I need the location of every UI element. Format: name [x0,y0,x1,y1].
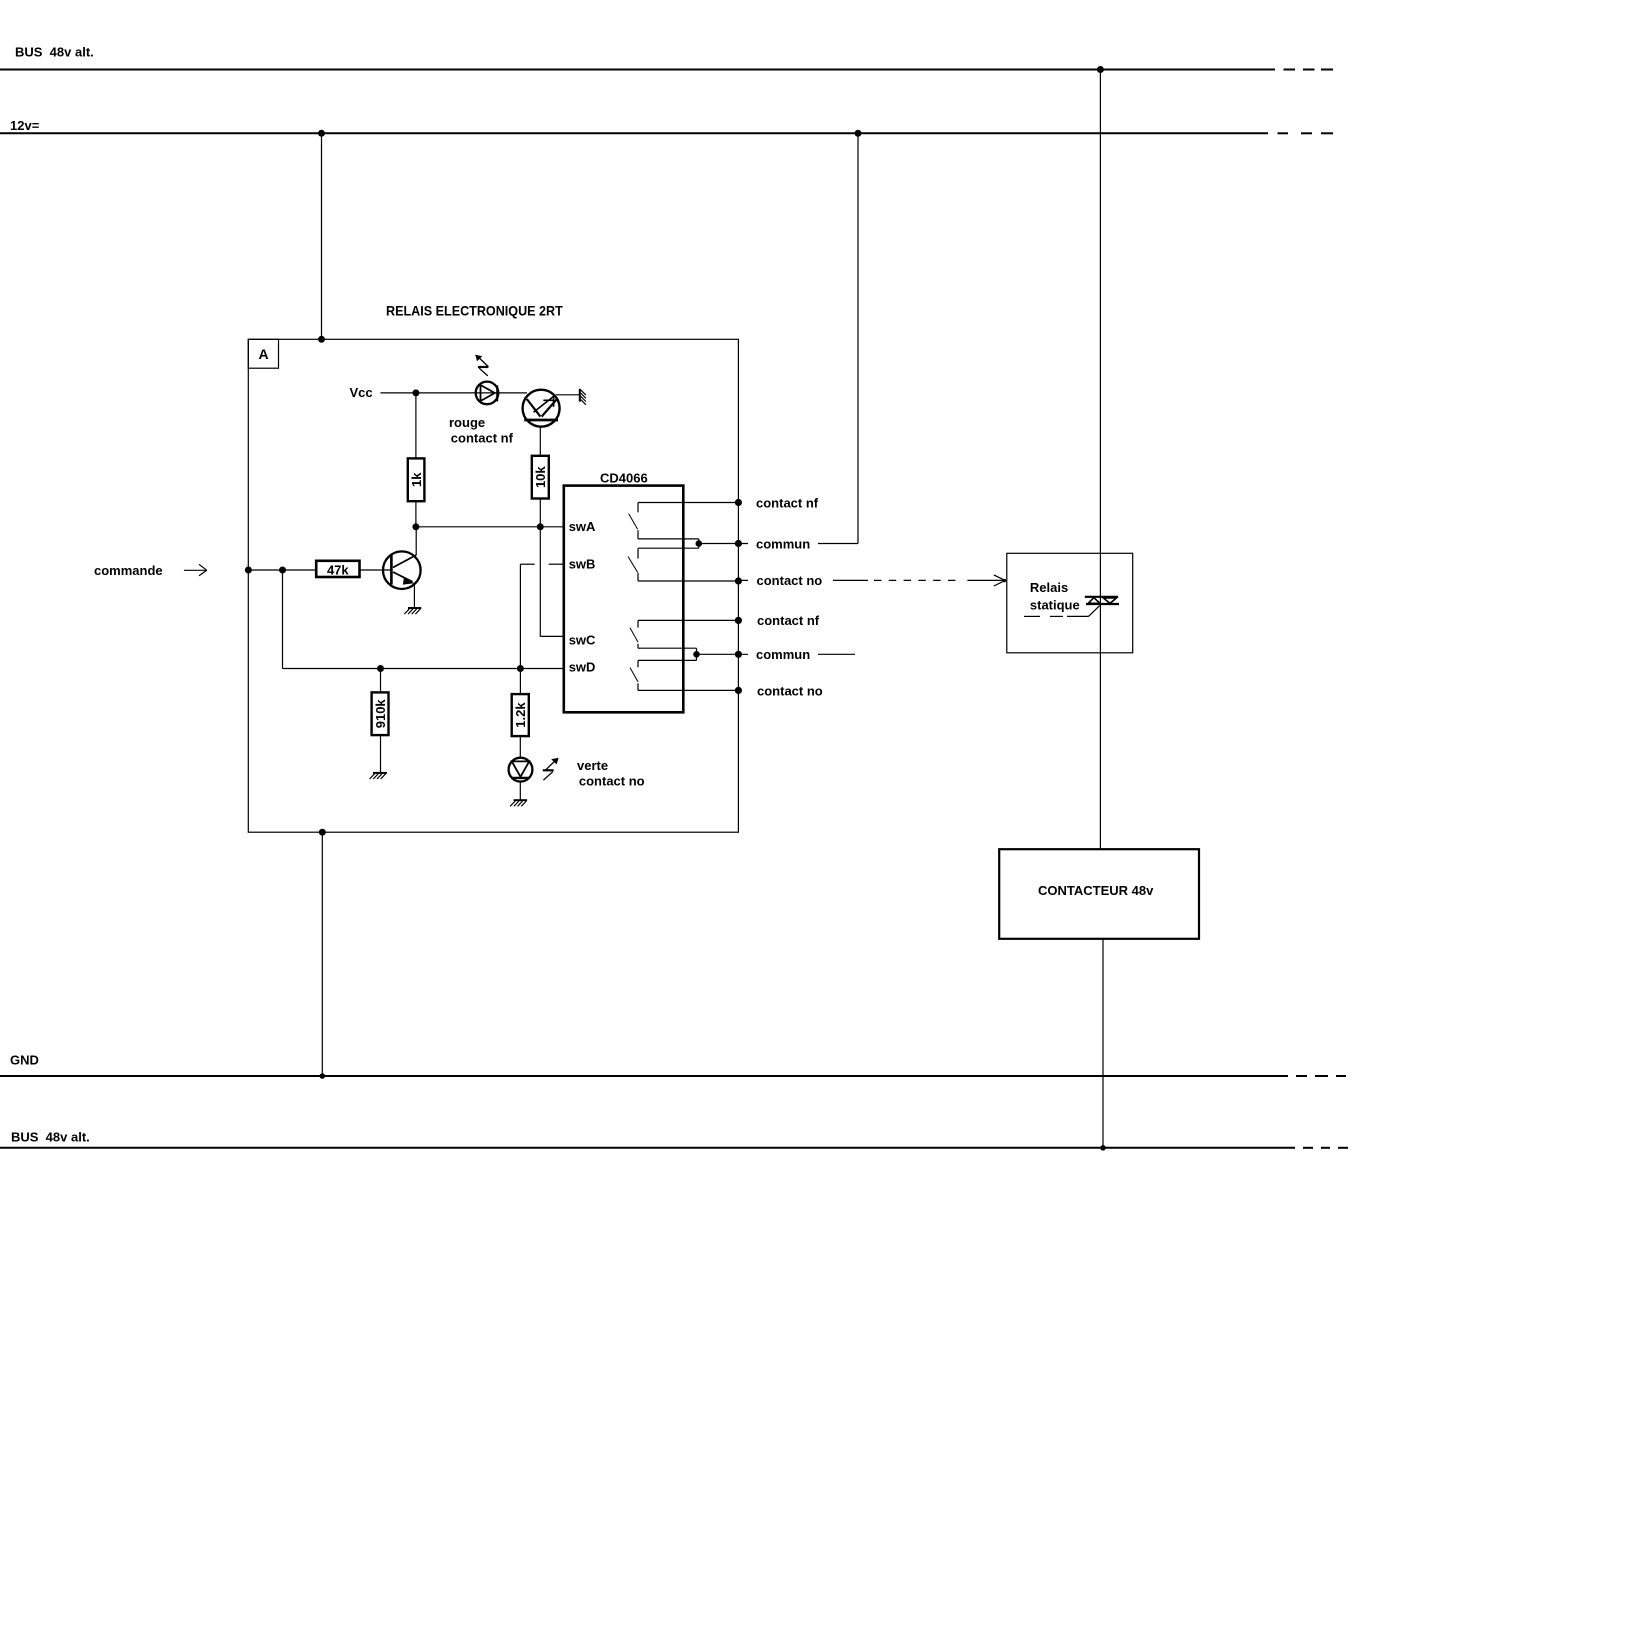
node contact nf (C) [735,613,820,628]
svg-text:verte: verte [577,758,608,773]
svg-text:Relais: Relais [1030,580,1068,595]
svg-text:commande: commande [94,563,163,578]
net BUS 48v alt. (top) label [15,45,94,60]
net 12v= label [10,118,40,133]
wire 10k junction down to swC pin [540,527,564,637]
module title RELAIS ELECTRONIQUE 2RT [386,303,563,319]
svg-text:contact no: contact no [579,774,645,789]
svg-text:CONTACTEUR 48v: CONTACTEUR 48v [1038,883,1154,898]
LED D1 light arrow [475,355,488,376]
pin label swA [569,519,596,534]
wire BUS 48v bottom rail [0,1147,1348,1149]
module Relais statique box [1007,553,1133,653]
svg-text:commun: commun [756,647,810,662]
switch swB [628,548,738,581]
svg-text:RELAIS ELECTRONIQUE 2RT: RELAIS ELECTRONIQUE 2RT [386,303,563,319]
svg-text:1.2k: 1.2k [513,702,528,728]
wire triac gate (dash-dot) [1024,606,1100,617]
switch swA [629,503,739,539]
svg-text:BUS 48v alt.: BUS 48v alt. [11,1130,90,1145]
node contact no (D) [735,683,823,698]
module RELAIS ELECTRONIQUE 2RT box [248,339,738,832]
resistor R3 47k [316,561,390,578]
node commun (C-D) [735,647,855,662]
svg-text:10k: 10k [533,466,548,488]
triac inside relais statique [1085,597,1119,604]
svg-text:A: A [259,346,269,362]
transistor Q1 [383,527,421,608]
ground below 910k [370,773,387,779]
svg-text:GND: GND [10,1053,39,1068]
label rouge contact nf [449,415,514,446]
switch swC [630,620,738,648]
wire BUS top down through relais statique to contacteur [1097,66,1104,849]
IC U1 CD4066 box [564,471,684,713]
label commande [94,563,163,578]
ground below LED D3 [510,800,527,806]
wire Vcc feed [380,389,579,396]
node commun A-B jog [696,539,739,548]
arrow commande input [184,564,207,576]
svg-text:910k: 910k [373,699,388,729]
LED D3 light arrow [543,758,559,781]
wire 12v rail [0,132,1333,134]
svg-text:contact nf: contact nf [757,613,820,628]
module CONTACTEUR 48v box [999,849,1199,939]
svg-text:swC: swC [569,632,596,647]
svg-text:contact no: contact no [757,683,823,698]
svg-text:12v=: 12v= [10,118,40,133]
wire 12v rail down to commun A [855,130,862,544]
svg-text:contact nf: contact nf [451,431,514,446]
LED D3 verte [509,758,533,801]
resistor R2 10k [532,426,549,527]
svg-text:swB: swB [569,556,596,571]
node contact no (B) with dashed link to relais statique [735,573,1006,588]
wire commande to 47k [245,567,316,574]
label verte contact no [577,758,645,789]
node commun C-D jog [693,648,738,660]
resistor R1 1k [408,393,425,527]
module corner tag A [248,339,278,368]
node Vcc label [350,385,373,400]
svg-text:BUS 48v alt.: BUS 48v alt. [15,45,94,60]
wire BUS 48v top rail [0,69,1333,71]
svg-text:statique: statique [1030,598,1080,613]
switch swD [630,660,738,690]
svg-text:Vcc: Vcc [350,385,373,400]
svg-text:contact nf: contact nf [756,495,819,510]
net GND label [10,1053,39,1068]
wire 12v rail to module box top [318,130,325,343]
wire contacteur bottom to BUS bottom [1100,939,1106,1151]
svg-text:47k: 47k [327,562,349,577]
net BUS 48v alt. (bottom) label [11,1130,90,1145]
svg-text:commun: commun [756,536,810,551]
resistor R4 910k [372,669,389,773]
node commun (A-B) [735,536,858,551]
svg-text:CD4066: CD4066 [600,471,648,486]
wire swB pin (with hop gap over 10k line) [520,563,563,565]
LED D1 rouge [476,382,499,405]
svg-text:1k: 1k [409,472,424,487]
resistor R5 1.2k [512,694,529,758]
pin label swB [569,556,596,571]
wire swD feed (commande branch) [283,570,564,672]
ground at Q1 emitter [404,608,421,614]
wire swA feed [412,523,563,530]
node contact nf (A) [735,495,819,510]
wire swB pin vertical to swD line and 1.2k [519,564,521,694]
chassis ground right of LED D2 [580,389,586,405]
pin label swC [569,632,596,647]
svg-text:contact no: contact no [757,573,823,588]
LED D2 (opto output) [523,390,560,427]
svg-text:swD: swD [569,659,596,674]
svg-text:rouge: rouge [449,415,485,430]
wire module box bottom to GND rail [319,829,326,1079]
wire GND rail [0,1075,1346,1077]
pin label swD [569,659,596,674]
svg-text:swA: swA [569,519,596,534]
